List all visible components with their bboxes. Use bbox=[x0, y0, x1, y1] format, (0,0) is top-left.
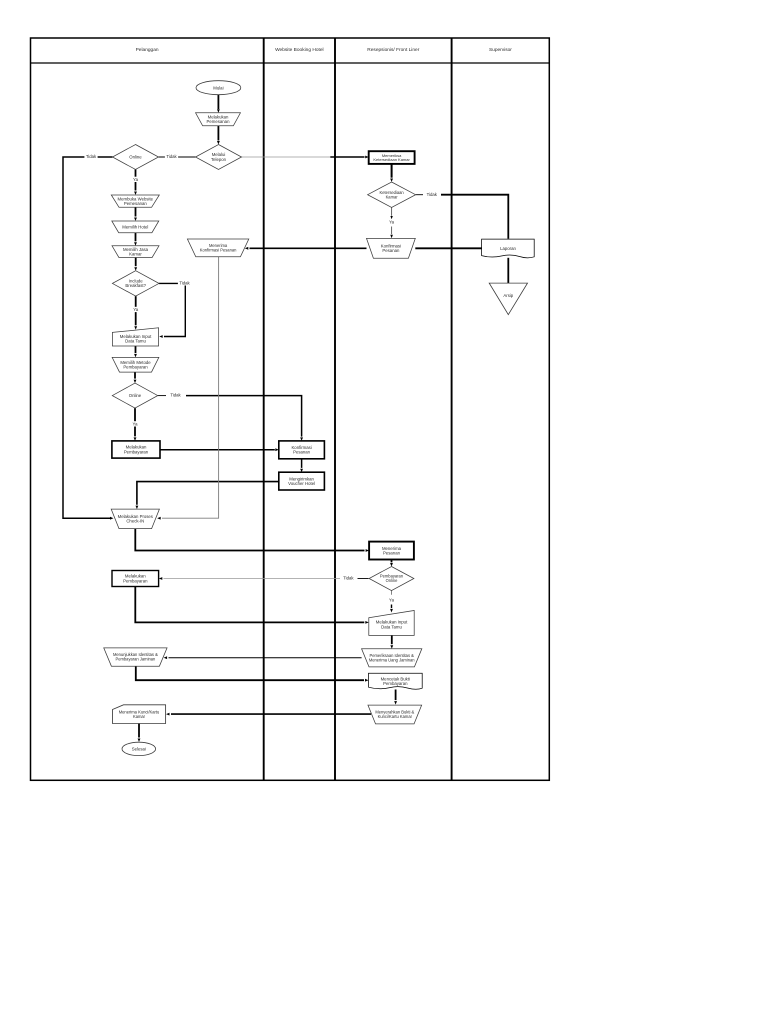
wire Melakukan Pembayaran to Konfirmasi Pesanan box bbox=[160, 449, 275, 451]
svg-text:MelakukanPembayaran: MelakukanPembayaran bbox=[123, 574, 148, 584]
svg-text:Menyerahkan Bukti &Kunci/Kartu: Menyerahkan Bukti &Kunci/Kartu Kamar bbox=[375, 710, 414, 720]
wire Menerima Pesanan to Pembayaran Online bbox=[391, 560, 393, 563]
document Laporan bbox=[482, 239, 535, 258]
svg-text:Ya: Ya bbox=[389, 598, 395, 603]
wire Memilih Metode Pembayaran to Online decision bbox=[134, 372, 136, 379]
process Mengirimkan Voucher Hotel bbox=[279, 472, 325, 490]
process Menerima Pesanan bbox=[369, 542, 414, 560]
svg-text:Pelanggan: Pelanggan bbox=[136, 47, 159, 53]
svg-text:Tidak: Tidak bbox=[343, 576, 354, 581]
wire Konfirmasi Pesanan to Mengirimkan Voucher Hotel bbox=[301, 459, 303, 468]
wire Memeriksa Ketersediaan Kamar to Ketersediaan Kamar bbox=[391, 164, 393, 178]
svg-text:Tidak: Tidak bbox=[166, 154, 177, 159]
svg-text:Memilih Hotel: Memilih Hotel bbox=[122, 224, 148, 229]
decision Melalui Telepon bbox=[196, 145, 242, 170]
wire Menerima Konfirmasi Pesanan drop to Melakukan Proses Check-IN bbox=[162, 257, 219, 518]
svg-text:Tidak: Tidak bbox=[179, 280, 190, 285]
manual operation Melakukan Proses Check-IN bbox=[111, 509, 159, 528]
wire Melakukan Input Data Tamu 2 to Pemeriksaan Identitas bbox=[391, 635, 393, 644]
lane boundary 1 bbox=[263, 38, 265, 780]
manual operation Menunjukkan Identitas dan Pembayaran Jaminan bbox=[104, 648, 167, 666]
wire Include Breakfast Ya to Melakukan Input Data Tamu bbox=[135, 296, 137, 325]
svg-text:MelakukanPemesanan: MelakukanPemesanan bbox=[207, 115, 231, 125]
wire Membuka Website Pemesanan to Memilih Hotel bbox=[135, 207, 137, 216]
wire Pembayaran Online Tidak to Melakukan Pembayaran 2 bbox=[358, 578, 369, 580]
svg-text:Ya: Ya bbox=[133, 177, 139, 182]
svg-text:Tidak: Tidak bbox=[427, 192, 438, 197]
wire Online Tidak feedback to Melakukan Proses Check-IN bbox=[63, 157, 113, 518]
wire Laporan to Arsip bbox=[507, 258, 509, 284]
manual operation Memilih Jasa Kamar bbox=[112, 246, 159, 258]
svg-text:Ya: Ya bbox=[389, 220, 395, 225]
svg-text:Arsip: Arsip bbox=[503, 293, 513, 298]
terminator Mulai bbox=[196, 81, 241, 95]
wire Include Breakfast Tidak elbow to Melakukan Input Data Tamu bbox=[159, 283, 185, 336]
wire Menyerahkan Bukti to Menerima Kunci Kartu Kamar bbox=[171, 713, 371, 715]
manual operation Membuka Website Pemesanan bbox=[111, 195, 159, 207]
svg-text:Mencetak BuktiPembayaran: Mencetak BuktiPembayaran bbox=[381, 676, 410, 686]
off-page archive Arsip triangle bbox=[489, 283, 527, 315]
process Melakukan Pembayaran 2 bbox=[112, 571, 159, 587]
wire Melakukan Proses Check-IN to Menerima Pesanan bbox=[135, 529, 364, 551]
svg-text:Pemeriksaan Identitas &Menerim: Pemeriksaan Identitas &Menerima Uang Jam… bbox=[369, 653, 415, 663]
svg-text:MelakukanPembayaran: MelakukanPembayaran bbox=[124, 445, 149, 455]
wire Melalui Telepon to Memeriksa Ketersediaan Kamar bbox=[242, 156, 331, 158]
process Melakukan Pembayaran bbox=[112, 441, 160, 458]
wire Konfirmasi Pesanan trapezoid to Laporan bbox=[415, 247, 481, 249]
wire Mulai to Melakukan Pemesanan bbox=[217, 95, 219, 109]
svg-text:Online: Online bbox=[129, 155, 142, 160]
wire Melakukan Pembayaran 2 to Melakukan Input Data Tamu 2 bbox=[135, 587, 364, 623]
svg-text:Ya: Ya bbox=[133, 421, 139, 426]
wire Memilih Jasa Kamar to Include Breakfast bbox=[135, 258, 137, 267]
card Menerima Kunci Kartu Kamar bbox=[113, 705, 166, 724]
wire Online Ya to Membuka Website Pemesanan bbox=[135, 170, 137, 191]
wire Ketersediaan Kamar Tidak to Laporan bbox=[416, 194, 423, 196]
wire Online2 Tidak elbow to Konfirmasi Pesanan box bbox=[158, 395, 166, 397]
wire Ketersediaan Kamar Ya to Konfirmasi Pesanan trapezoid bbox=[391, 207, 393, 215]
manual operation Melakukan Pemesanan bbox=[196, 113, 241, 126]
svg-text:Tidak: Tidak bbox=[86, 154, 97, 159]
wire Konfirmasi Pesanan trapezoid to Menerima Konfirmasi Pesanan bbox=[250, 247, 367, 249]
svg-text:KonfirmasiPesanan: KonfirmasiPesanan bbox=[381, 244, 401, 254]
svg-text:Supervisor: Supervisor bbox=[489, 47, 512, 53]
wire Online2 Ya to Melakukan Pembayaran bbox=[134, 408, 136, 436]
decision Online 2 bbox=[112, 383, 157, 408]
manual operation Memilih Hotel bbox=[112, 221, 159, 233]
svg-text:Tidak: Tidak bbox=[170, 393, 181, 398]
wire Mengirimkan Voucher Hotel elbow to Melakukan Proses Check-IN top bbox=[137, 482, 279, 505]
decision Online bbox=[113, 145, 159, 170]
manual input Melakukan Input Data Tamu bbox=[112, 328, 158, 346]
document Mencetak Bukti Pembayaran bbox=[369, 673, 423, 689]
lane boundary 3 bbox=[451, 38, 453, 780]
manual operation Pemeriksaan Identitas dan Menerima Uang Jaminan bbox=[362, 649, 422, 667]
wire Melalui Telepon to Online with label Tidak bbox=[159, 156, 196, 158]
svg-text:Website Booking Hotel: Website Booking Hotel bbox=[275, 47, 323, 53]
decision Ketersediaan Kamar bbox=[368, 182, 416, 207]
wire Melakukan Pemesanan to Melalui Telepon bbox=[217, 126, 219, 141]
wire Menunjukkan Identitas to Mencetak Bukti Pembayaran bbox=[136, 666, 364, 680]
svg-text:Online: Online bbox=[129, 393, 142, 398]
wire Melakukan Input Data Tamu to Memilih Metode Pembayaran bbox=[135, 346, 137, 353]
manual input Melakukan Input Data Tamu 2 bbox=[369, 611, 414, 636]
svg-text:Selesai: Selesai bbox=[132, 747, 146, 752]
manual operation Menyerahkan Bukti dan Kunci Kartu Kamar bbox=[368, 705, 422, 724]
svg-text:KonfirmasiPesanan: KonfirmasiPesanan bbox=[291, 445, 311, 455]
svg-text:Ya: Ya bbox=[133, 307, 139, 312]
svg-text:Memilih MetodePembayaran: Memilih MetodePembayaran bbox=[120, 360, 151, 370]
decision Pembayaran Online bbox=[369, 567, 414, 591]
wire Mencetak Bukti Pembayaran to Menyerahkan Bukti bbox=[395, 690, 397, 701]
svg-text:MenerimaPesanan: MenerimaPesanan bbox=[382, 546, 402, 556]
svg-text:MelaluiTelepon: MelaluiTelepon bbox=[211, 152, 227, 162]
lane boundary 2 bbox=[334, 38, 336, 780]
svg-text:Menunjukkan Identitas &Pembaya: Menunjukkan Identitas &Pembayaran Jamina… bbox=[113, 652, 158, 662]
wire Pembayaran Online Ya to Melakukan Input Data Tamu 2 bbox=[391, 591, 393, 595]
svg-text:MengirimkanVoucher Hotel: MengirimkanVoucher Hotel bbox=[288, 476, 315, 486]
swimlane frame bbox=[31, 38, 550, 780]
wire Pemeriksaan Identitas to Menunjukkan Identitas bbox=[169, 657, 362, 659]
svg-text:Mulai: Mulai bbox=[213, 85, 223, 90]
process Memeriksa Ketersediaan Kamar bbox=[369, 151, 415, 164]
manual operation Memilih Metode Pembayaran bbox=[112, 357, 159, 372]
decision Include Breakfast bbox=[112, 271, 159, 296]
wire Menerima Kunci Kartu Kamar to Selesai bbox=[138, 724, 140, 738]
header separator line bbox=[31, 62, 550, 64]
wire Memilih Hotel to Memilih Jasa Kamar bbox=[135, 233, 137, 242]
svg-text:Resepsionis/ Front Liner: Resepsionis/ Front Liner bbox=[367, 47, 419, 53]
manual operation Menerima Konfirmasi Pesanan bbox=[187, 239, 248, 257]
process Konfirmasi Pesanan website bbox=[279, 441, 325, 459]
manual operation Konfirmasi Pesanan resepsionis bbox=[367, 238, 416, 258]
svg-text:Laporan: Laporan bbox=[500, 246, 516, 251]
terminator Selesai bbox=[122, 742, 156, 755]
